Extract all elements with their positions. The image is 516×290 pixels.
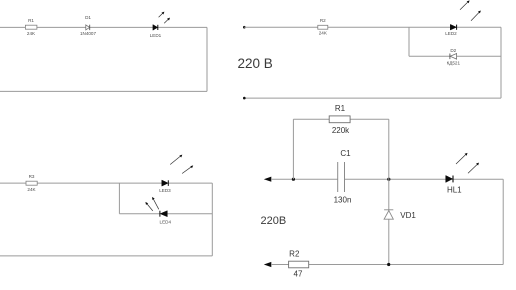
LED LED2 bbox=[450, 0, 481, 30]
wire top (left segment to R1) bbox=[0, 26, 25, 28]
resistor R2 bbox=[318, 25, 328, 29]
svg-text:LED4: LED4 bbox=[160, 220, 172, 225]
capacitor C1 bbox=[338, 162, 345, 192]
wire top (LED3 to right corner) bbox=[169, 182, 213, 184]
svg-text:R3: R3 bbox=[29, 174, 35, 179]
wire bottom (R2 to right corner) bbox=[309, 264, 504, 266]
node junction dot B bbox=[387, 178, 390, 181]
wire branch horizontal (to LED4) bbox=[119, 213, 159, 215]
wire branch vertical bbox=[408, 27, 410, 56]
wire VD1 vertical bbox=[388, 179, 390, 264]
svg-text:LED2: LED2 bbox=[445, 31, 457, 36]
wire top (D1 to LED1) bbox=[90, 26, 153, 28]
wire bottom (arrow to R2) bbox=[271, 264, 289, 266]
LED LED1 bbox=[153, 12, 170, 31]
svg-text:220k: 220k bbox=[332, 126, 350, 135]
node junction dot A bbox=[292, 178, 295, 181]
svg-text:C1: C1 bbox=[340, 149, 351, 158]
diode D1 bbox=[86, 25, 90, 30]
terminal arrow left (bottom line) bbox=[264, 262, 272, 267]
LED HL1 bbox=[446, 153, 479, 183]
wire top (R3 to LED3) bbox=[37, 182, 162, 184]
wire top (R2 to LED2) bbox=[328, 26, 450, 28]
svg-text:КД521: КД521 bbox=[447, 61, 461, 66]
resistor R1 bbox=[25, 25, 37, 29]
wire right vertical bbox=[211, 183, 213, 256]
svg-text:47: 47 bbox=[294, 270, 303, 279]
diode D2 bbox=[450, 54, 457, 60]
wire right vertical bbox=[206, 27, 208, 91]
wire right vertical bbox=[502, 179, 504, 264]
svg-text:130n: 130n bbox=[334, 195, 352, 204]
wire branch horizontal bbox=[409, 55, 501, 57]
svg-text:LED3: LED3 bbox=[159, 188, 171, 193]
svg-text:220 В: 220 В bbox=[238, 56, 273, 71]
wire R1-branch right vertical bbox=[388, 119, 390, 179]
wire top (terminal to R2) bbox=[244, 26, 317, 28]
resistor R2 bbox=[289, 261, 309, 268]
wire main (arrow to C1) bbox=[271, 178, 338, 180]
wire bottom bbox=[0, 90, 207, 92]
wire main (C1 to right corner) bbox=[345, 178, 504, 180]
wire bottom bbox=[0, 255, 212, 257]
wire bottom bbox=[244, 97, 501, 99]
wire top (R1 to D1) bbox=[37, 26, 86, 28]
svg-text:LED1: LED1 bbox=[150, 33, 162, 38]
node dot top-left terminal bbox=[243, 26, 246, 29]
wire branch vertical bbox=[118, 183, 120, 214]
svg-text:HL1: HL1 bbox=[447, 185, 462, 194]
wire top (left segment to R3) bbox=[0, 182, 26, 184]
svg-text:R2: R2 bbox=[320, 18, 326, 23]
node dot bottom-left terminal bbox=[243, 97, 246, 100]
svg-text:VD1: VD1 bbox=[400, 211, 416, 220]
svg-text:24K: 24K bbox=[319, 31, 328, 36]
svg-text:R2: R2 bbox=[289, 249, 300, 258]
svg-text:24K: 24K bbox=[27, 187, 36, 192]
LED LED4 bbox=[145, 197, 167, 217]
svg-text:R1: R1 bbox=[335, 104, 346, 113]
svg-text:R1: R1 bbox=[28, 18, 34, 23]
svg-text:24K: 24K bbox=[27, 31, 36, 36]
svg-text:220B: 220B bbox=[261, 215, 287, 227]
diode VD1 bbox=[384, 210, 393, 219]
terminal arrow left (line input) bbox=[264, 177, 272, 182]
wire branch horizontal (LED4 to right) bbox=[167, 213, 212, 215]
wire top (LED1 to right corner) bbox=[158, 26, 207, 28]
svg-text:D2: D2 bbox=[450, 48, 456, 53]
wire R1-branch horizontal bbox=[293, 118, 388, 120]
wire top (LED2 to right corner) bbox=[457, 26, 501, 28]
svg-text:D1: D1 bbox=[85, 15, 91, 20]
wire right vertical bbox=[500, 27, 502, 98]
resistor R1 bbox=[329, 116, 350, 123]
LED LED3 bbox=[162, 155, 193, 187]
wire R1-branch left vertical bbox=[292, 119, 294, 179]
resistor R3 bbox=[26, 181, 37, 185]
svg-text:1N4007: 1N4007 bbox=[80, 31, 97, 36]
node junction dot C bbox=[387, 263, 390, 266]
